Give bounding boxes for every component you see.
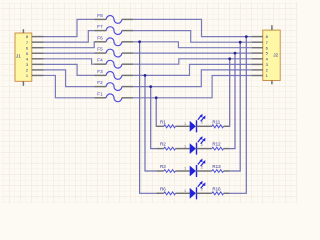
J1 pin 4 stub (32, 58, 44, 60)
svg-text:F1: F1 (97, 91, 103, 96)
wire feed right to LED row 2 (229, 53, 235, 149)
J2 pin 7 stub (252, 41, 263, 43)
junction on right feed row 4 (245, 35, 248, 38)
junction on right feed row 2 (234, 52, 237, 55)
svg-text:F6: F6 (97, 35, 103, 40)
LED row 1 (176, 114, 212, 133)
svg-text:F5: F5 (97, 47, 103, 52)
connector J2 (263, 30, 280, 80)
svg-text:F3: F3 (97, 69, 103, 74)
junction on left feed row 1 (155, 96, 158, 99)
wire feed right to LED row 4 (229, 37, 246, 194)
wire J1 pin 4 to fuse F4 (44, 59, 95, 64)
svg-text:1: 1 (184, 144, 186, 148)
svg-text:R11: R11 (212, 119, 220, 124)
wire fuse F1 to J2 pin 1 (133, 76, 252, 98)
junction on right feed row 3 (239, 41, 242, 44)
svg-text:R13: R13 (212, 164, 221, 169)
J2 pin 6 stub (252, 47, 263, 49)
resistor R6 (156, 186, 175, 194)
resistor R12 (212, 142, 229, 150)
J1 pin 5 stub (32, 52, 44, 54)
J1 top pin stub (22, 29, 24, 33)
wire J1 pin 5 to fuse F5 (44, 52, 95, 54)
resistor R3 (156, 164, 175, 172)
svg-text:R2: R2 (160, 142, 166, 147)
resistor R2 (156, 142, 175, 150)
J1 pin 2 stub (32, 69, 44, 71)
J1 pin 8 stub (32, 36, 44, 38)
fuse F4 (95, 58, 134, 68)
J1 pin 3 stub (32, 63, 44, 65)
fuse F3 (95, 69, 134, 79)
J2 top pin stub (271, 25, 273, 30)
J1 pin 7 stub (32, 41, 44, 43)
J2 bottom pin stub (271, 81, 273, 85)
resistor R13 (212, 164, 229, 172)
wire fuse F5 to J2 pin 5 (133, 52, 252, 54)
svg-text:J2: J2 (273, 53, 278, 58)
fuse F5 (95, 47, 134, 57)
junction on left feed row 4 (138, 40, 141, 43)
svg-text:R16: R16 (212, 186, 221, 191)
connector J1 (15, 33, 32, 81)
svg-text:F4: F4 (97, 58, 103, 63)
J2 pin 3 stub (252, 63, 263, 65)
J2 pin 5 stub (252, 52, 263, 54)
wire feed right to LED row 3 (229, 42, 240, 171)
resistor R11 (212, 119, 229, 127)
resistor R1 (156, 119, 175, 127)
svg-text:R3: R3 (160, 164, 166, 169)
svg-text:F2: F2 (97, 80, 103, 85)
svg-text:1: 1 (184, 189, 186, 193)
J2 pin 8 stub (252, 36, 263, 38)
wire fuse F4 to J2 pin 4 (133, 59, 252, 64)
svg-text:R6: R6 (160, 186, 166, 191)
wire feed left to LED row 1 (155, 98, 157, 127)
svg-text:1: 1 (184, 122, 186, 126)
fuse F8 (95, 13, 134, 23)
wire fuse F8 to J2 pin 8 (133, 19, 252, 36)
svg-text:R1: R1 (160, 119, 166, 124)
fuse F6 (95, 35, 134, 45)
J2 pin 2 stub (252, 69, 263, 71)
LED row 2 (176, 136, 212, 155)
LED row 4 (176, 181, 212, 200)
wire feed left to LED row 3 (145, 75, 156, 171)
junction on left feed row 2 (149, 85, 152, 88)
J2 pin 4 stub (252, 58, 263, 60)
J1 pin 6 stub (32, 47, 44, 49)
resistor R16 (212, 186, 229, 194)
wire J1 pin 3 to fuse F3 (44, 64, 95, 75)
wire fuse F7 to J2 pin 7 (133, 31, 252, 43)
J1 pin 1 stub (32, 74, 44, 76)
svg-text:R12: R12 (212, 142, 221, 147)
wire J1 pin 1 to fuse F1 (44, 75, 95, 97)
wire J1 pin 8 to fuse F8 (44, 19, 95, 36)
fuse F1 (95, 91, 134, 101)
wire feed left to LED row 4 (140, 42, 157, 194)
wire J1 pin 2 to fuse F2 (44, 70, 95, 87)
svg-text:J1: J1 (16, 54, 21, 59)
svg-text:F8: F8 (97, 13, 103, 18)
wire J1 pin 7 to fuse F7 (44, 31, 95, 43)
junction on left feed row 3 (144, 74, 147, 77)
wire J1 pin 6 to fuse F6 (44, 42, 95, 48)
wire feed right to LED row 1 (228, 59, 231, 127)
wire fuse F2 to J2 pin 2 (133, 70, 252, 87)
wire feed left to LED row 2 (151, 87, 157, 149)
LED row 3 (176, 159, 212, 178)
svg-text:1: 1 (184, 167, 186, 171)
J2 pin 1 stub (252, 75, 263, 77)
fuse F2 (95, 80, 134, 90)
wire fuse F6 to J2 pin 6 (133, 42, 252, 48)
wire fuse F3 to J2 pin 3 (133, 64, 252, 75)
svg-text:F7: F7 (97, 24, 103, 29)
J1 bottom pin stub (22, 81, 24, 86)
fuse F7 (95, 24, 134, 34)
junction on right feed row 1 (228, 57, 231, 60)
